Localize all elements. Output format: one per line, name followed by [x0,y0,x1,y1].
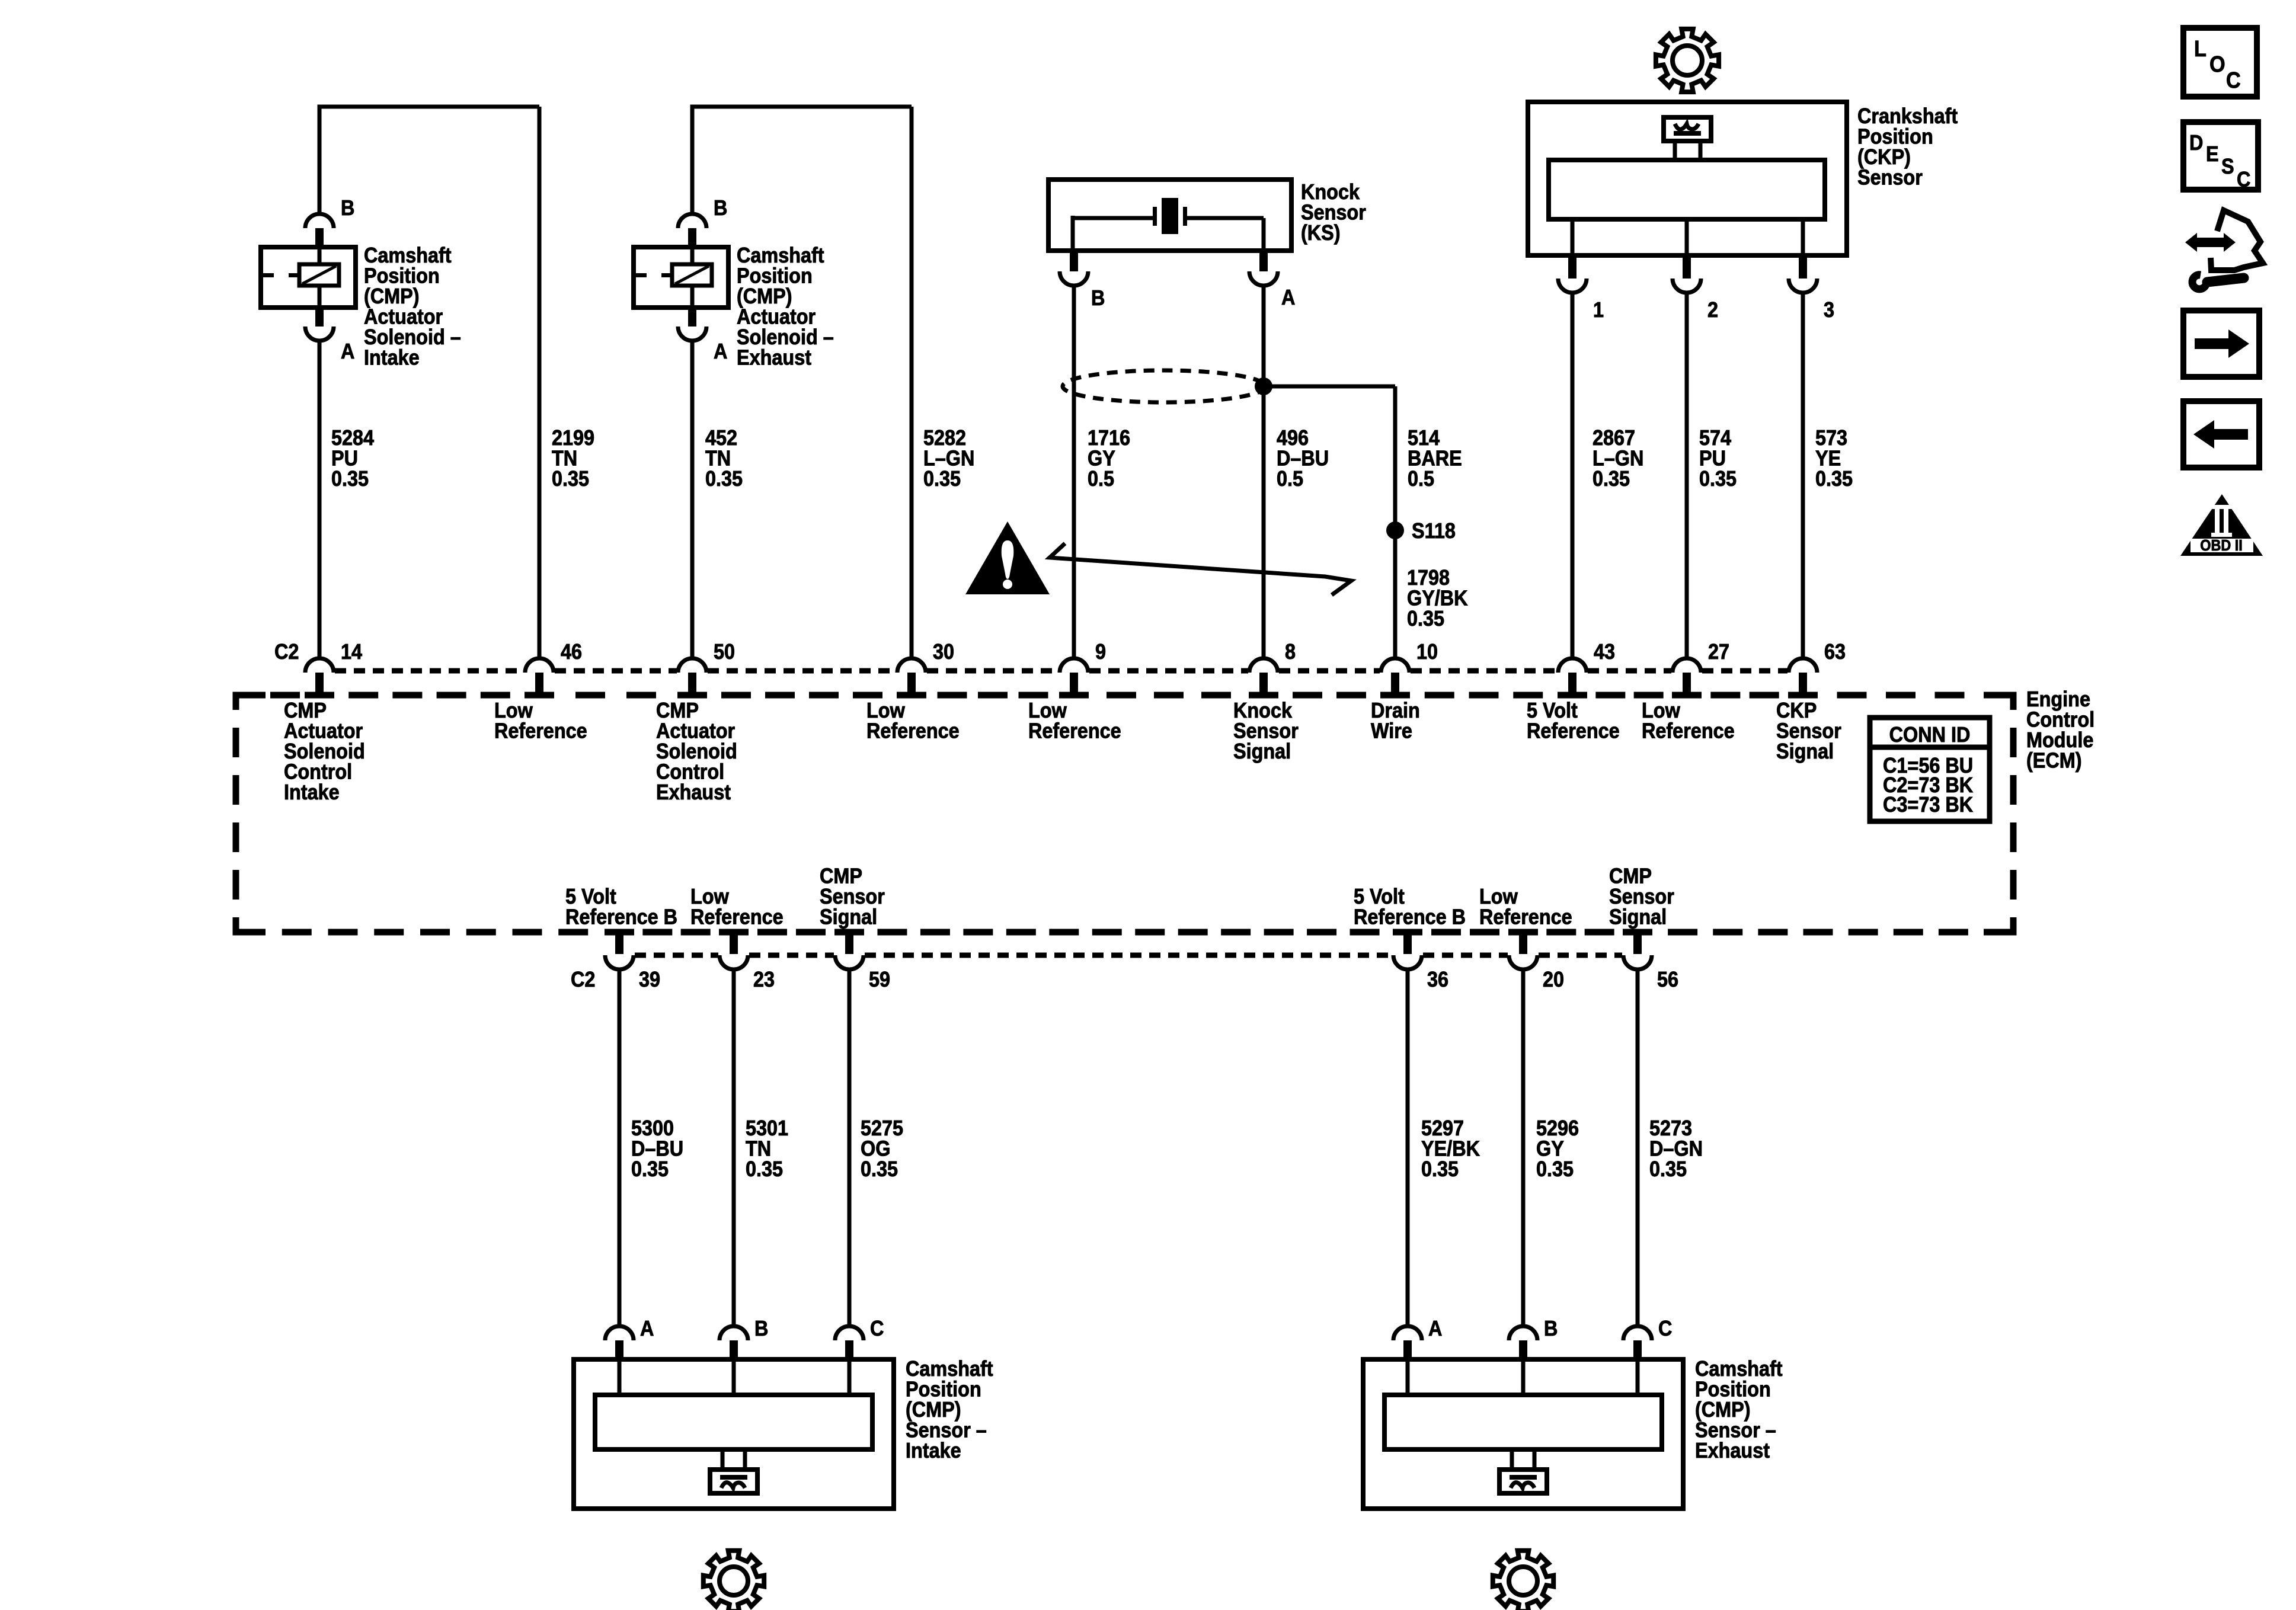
wire 573 YE CKP sensor signal [1801,292,1805,658]
svg-text:Signal: Signal [820,905,877,929]
CKP internal leads [1571,219,1575,255]
wire terminal A [688,308,696,327]
CMP Intake sensor terminal C [835,1326,864,1340]
svg-text:Exhaust: Exhaust [737,346,811,370]
svg-text:Reference: Reference [1479,905,1572,929]
CMP Exhaust sensor terminal C [1623,1326,1652,1340]
svg-text:OBD II: OBD II [2200,537,2242,554]
svg-text:2: 2 [1707,298,1718,322]
svg-text:C3=73 BK: C3=73 BK [1883,793,1973,817]
ECM pin 8 terminal [1249,658,1278,673]
svg-text:Reference: Reference [1028,719,1121,743]
svg-text:0.35: 0.35 [1815,467,1853,491]
svg-text:0.5: 0.5 [1408,467,1434,491]
wire 5296 GY [1521,969,1526,1327]
svg-text:0.35: 0.35 [1536,1157,1574,1181]
svg-text:Intake: Intake [906,1439,961,1462]
DESC reference icon [2183,122,2258,190]
ECM pin 63 terminal [1789,658,1817,673]
svg-text:0.35: 0.35 [923,467,961,491]
svg-text:0.35: 0.35 [552,467,589,491]
CKP icon stem [1673,140,1677,160]
CMP sensor Intake inner element box [595,1395,872,1449]
svg-text:30: 30 [933,640,954,664]
svg-text:C: C [2226,67,2241,92]
connector in-line dashed row (ECM C2 top) [335,668,524,674]
wire from exhaust solenoid pin A to ECM pin 50 [690,340,695,658]
wire terminal A [315,308,324,327]
wire 496 D-BU knock sensor signal [1262,285,1266,658]
wire terminal B exhaust solenoid [678,214,706,228]
svg-text:Signal: Signal [1776,740,1834,763]
svg-text:C2: C2 [571,968,595,991]
svg-text:50: 50 [714,640,735,664]
wire 5297 YE/BK [1406,969,1410,1327]
svg-text:B: B [1544,1317,1558,1340]
Engine Control Module (ECM) dashed outline [236,692,266,699]
svg-text:Reference: Reference [866,719,960,743]
svg-text:A: A [1428,1317,1442,1340]
svg-text:A: A [714,340,727,363]
svg-text:B: B [341,196,354,220]
svg-text:A: A [640,1317,654,1340]
svg-text:0.35: 0.35 [861,1157,898,1181]
CMP sensor Exhaust connector keyway icon [1499,1470,1547,1493]
svg-text:43: 43 [1594,640,1615,664]
splice S118 [1386,521,1404,539]
svg-text:0.5: 0.5 [1277,467,1303,491]
svg-text:B: B [1091,286,1105,310]
svg-text:B: B [754,1317,768,1340]
wire from intake solenoid pin A to ECM pin 14 [318,340,322,658]
shield junction node [1255,377,1272,395]
wire 2867 L-GN 5 volt reference [1571,292,1575,658]
svg-text:B: B [714,196,727,220]
CKP connector keyway icon [1664,117,1711,141]
wire 5300 D-BU [618,969,622,1327]
wire 5301 TN [732,969,736,1327]
ECM pin 23 terminal [730,932,738,954]
svg-text:Exhaust: Exhaust [656,780,731,804]
gear icon below CMP sensor Exhaust [1493,1551,1553,1610]
connector in-line dashed row (ECM C2 bottom) [635,953,718,958]
svg-text:36: 36 [1427,968,1448,991]
svg-text:C: C [1658,1317,1672,1340]
warning triangle symbol [965,521,1050,594]
ECM pin 30 terminal [897,658,926,673]
knock sensor KS box [1048,180,1291,251]
CMP sensor Intake internal leads [618,1359,622,1395]
gear icon above CKP sensor [1656,29,1719,92]
CKP sensor inner element box [1549,160,1825,219]
wire 5273 D-GN [1636,969,1640,1327]
LOC reference icon [2183,28,2257,97]
svg-text:Reference: Reference [690,905,784,929]
svg-text:Exhaust: Exhaust [1695,1439,1770,1462]
svg-text:0.35: 0.35 [1421,1157,1459,1181]
CMP sensor Exhaust outer box [1363,1359,1683,1509]
ECM pin 56 terminal [1633,932,1642,954]
solenoid coil element [299,264,339,286]
CKP terminal 3 [1799,255,1807,279]
svg-text:Reference B: Reference B [1354,905,1466,929]
CMP sensor Exhaust icon stem [1510,1449,1514,1470]
svg-text:0.35: 0.35 [1593,467,1630,491]
svg-text:23: 23 [753,968,775,991]
wire terminal B intake solenoid [305,214,334,228]
CMP sensor Exhaust inner element box [1384,1395,1662,1449]
svg-text:S: S [2221,155,2234,178]
svg-text:0.35: 0.35 [1407,607,1444,630]
CKP terminal 2 [1683,255,1691,279]
svg-text:Intake: Intake [364,346,420,370]
svg-text:D: D [2189,131,2203,155]
svg-text:C2: C2 [274,640,299,664]
CMP Intake sensor terminal B [720,1326,748,1340]
KS terminal A [1259,251,1268,271]
svg-text:39: 39 [639,968,660,991]
svg-text:0.35: 0.35 [331,467,369,491]
svg-text:0.35: 0.35 [746,1157,783,1181]
wire 5282 L-GN (low reference return, exhaust) [910,107,914,658]
backward reference arrow icon [2183,401,2259,468]
solenoid internal wire [318,247,322,266]
gear icon below CMP sensor Intake [703,1551,764,1610]
svg-text:L: L [2194,36,2207,61]
svg-text:E: E [2206,142,2219,166]
ECM pin 59 terminal [845,932,853,954]
wire 5275 OG [848,969,852,1327]
shield ellipse around knock sensor wires [1063,370,1265,402]
ECM pin 27 terminal [1673,658,1701,673]
wire 452 TN loop (exhaust solenoid control) [690,107,695,215]
svg-text:46: 46 [561,640,582,664]
solenoid coil element [672,264,712,286]
wire 5284 PU loop (intake solenoid control) [318,107,322,215]
wire 574 PU low reference [1685,292,1689,658]
svg-text:Signal: Signal [1233,740,1291,763]
svg-text:C: C [870,1317,884,1340]
solenoid internal wire [690,247,695,266]
svg-text:0.35: 0.35 [1699,467,1737,491]
CMP sensor Intake outer box [574,1359,894,1509]
svg-text:1: 1 [1593,298,1604,322]
svg-text:20: 20 [1543,968,1564,991]
ECM pin 9 terminal [1060,658,1088,673]
ECM pin 43 terminal [1558,658,1587,673]
pointer arrow to shielded wires [1050,543,1351,595]
CMP sensor Intake connector keyway icon [710,1470,757,1493]
forward reference arrow icon [2183,311,2259,377]
svg-text:(ECM): (ECM) [2026,749,2082,773]
svg-text:0.35: 0.35 [631,1157,669,1181]
wire 2199 TN (low reference return, intake) [538,107,542,658]
svg-text:8: 8 [1285,640,1296,664]
svg-text:C: C [2237,168,2250,191]
svg-text:56: 56 [1657,968,1678,991]
CKP terminal 1 [1568,255,1576,279]
svg-text:A: A [1281,286,1295,309]
svg-text:Intake: Intake [284,780,340,804]
svg-text:9: 9 [1095,640,1106,664]
svg-text:0.35: 0.35 [705,467,743,491]
CMP sensor Intake icon stem [721,1449,725,1470]
svg-text:O: O [2209,51,2225,76]
ECM pin 14 terminal [305,658,334,673]
svg-text:3: 3 [1824,298,1834,322]
ECM pin 20 terminal [1519,932,1527,954]
ECM pin 46 terminal [525,658,554,673]
svg-text:Reference: Reference [1527,719,1620,743]
CONN ID table [1870,718,1990,821]
svg-text:0.5: 0.5 [1088,467,1114,491]
svg-text:59: 59 [869,968,890,991]
svg-text:(KS): (KS) [1301,221,1341,245]
wire 1716 GY knock sensor low reference [1072,285,1076,658]
ECM pin 50 terminal [678,658,706,673]
svg-text:Signal: Signal [1609,905,1667,929]
drain wire 514 BARE branch [1264,385,1395,389]
svg-text:A: A [341,340,354,363]
svg-text:Wire: Wire [1371,719,1412,743]
svg-text:63: 63 [1824,640,1846,664]
solenoid CMP actuator intake box [261,247,356,308]
CMP Intake sensor terminal A [605,1326,634,1340]
svg-text:27: 27 [1708,640,1729,664]
svg-text:CONN ID: CONN ID [1889,723,1971,747]
ECM pin 10 terminal [1381,658,1409,673]
ECM pin 39 terminal [615,932,623,954]
svg-text:Reference: Reference [494,719,587,743]
CMP sensor Exhaust internal leads [1406,1359,1410,1395]
CMP Exhaust sensor terminal A [1393,1326,1422,1340]
svg-text:Reference: Reference [1642,719,1735,743]
harness repair icon [2211,210,2263,270]
svg-text:Reference B: Reference B [565,905,677,929]
CMP Exhaust sensor terminal B [1509,1326,1537,1340]
OBD II triangle icon [2180,494,2263,556]
KS terminal B [1070,251,1078,271]
ECM pin 36 terminal [1403,932,1412,954]
piezo element inside knock sensor [1073,216,1155,220]
svg-text:0.35: 0.35 [1649,1157,1687,1181]
svg-text:14: 14 [341,640,362,664]
solenoid CMP actuator exhaust box [634,247,728,308]
svg-text:S118: S118 [1412,519,1456,543]
svg-text:Sensor: Sensor [1857,166,1923,190]
svg-text:10: 10 [1416,640,1438,664]
CKP sensor outer box [1528,102,1847,255]
